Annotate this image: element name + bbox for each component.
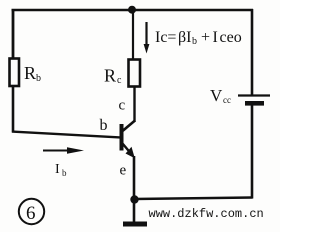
- current arrow Ic: [144, 22, 150, 54]
- wire base (to transistor base): [12, 132, 120, 138]
- svg-text:R: R: [104, 66, 116, 86]
- svg-text:+: +: [201, 29, 210, 46]
- wire Rb bottom to base corner: [12, 86, 15, 133]
- transistor Q1 collector stroke: [123, 121, 136, 132]
- svg-text:c: c: [119, 98, 126, 114]
- wire Rc bottom to collector: [133, 87, 135, 123]
- svg-text:I: I: [55, 162, 60, 177]
- svg-text:ceo: ceo: [220, 29, 242, 46]
- svg-text:c: c: [117, 75, 122, 86]
- label Rc: [104, 66, 122, 87]
- wire right vertical top (corner to battery): [251, 9, 254, 95]
- ground wire stub: [133, 199, 136, 222]
- pin label e: [120, 163, 127, 179]
- svg-text:b: b: [62, 168, 67, 178]
- ground symbol bar: [123, 222, 147, 227]
- resistor Rc: [129, 60, 141, 87]
- label Ib: [55, 162, 67, 178]
- resistor Rb: [10, 59, 20, 87]
- svg-text:V: V: [210, 86, 223, 105]
- watermark text www.dzkfw.com.cn: [149, 207, 264, 221]
- svg-text:www.dzkfw.com.cn: www.dzkfw.com.cn: [149, 207, 264, 221]
- transistor Q1 emitter stroke with arrow: [123, 144, 135, 159]
- wire top junction to Rc: [132, 10, 134, 60]
- label formula Ic = beta Ib + Iceo: [155, 29, 242, 47]
- current arrow Ib: [43, 147, 84, 153]
- svg-text:Ic=: Ic=: [155, 29, 176, 46]
- transistor Q1 base bar: [120, 124, 124, 151]
- svg-text:b: b: [100, 117, 108, 134]
- battery Vcc negative plate: [245, 101, 264, 106]
- wire top rail: [12, 9, 254, 12]
- svg-text:b: b: [192, 36, 197, 47]
- wire emitter down to bottom junction: [133, 156, 136, 199]
- svg-text:b: b: [36, 73, 41, 84]
- svg-text:βI: βI: [178, 29, 191, 46]
- wire right vertical bottom (battery to bottom corner): [251, 105, 254, 199]
- svg-text:6: 6: [26, 203, 36, 224]
- pin label b: [100, 117, 108, 134]
- svg-text:e: e: [120, 163, 127, 179]
- label Rb: [24, 63, 41, 84]
- label Vcc: [210, 86, 231, 105]
- pin label c: [119, 98, 126, 114]
- node top junction: [128, 6, 136, 14]
- svg-text:I: I: [213, 29, 218, 46]
- figure number 6 in circle: [19, 199, 44, 224]
- battery Vcc positive plate: [238, 94, 270, 96]
- svg-text:R: R: [24, 63, 36, 83]
- wire left vertical (top corner to Rb): [12, 9, 15, 59]
- wire bottom rail (junction to right corner): [134, 198, 253, 200]
- svg-text:cc: cc: [223, 95, 231, 105]
- node bottom junction: [130, 195, 138, 203]
